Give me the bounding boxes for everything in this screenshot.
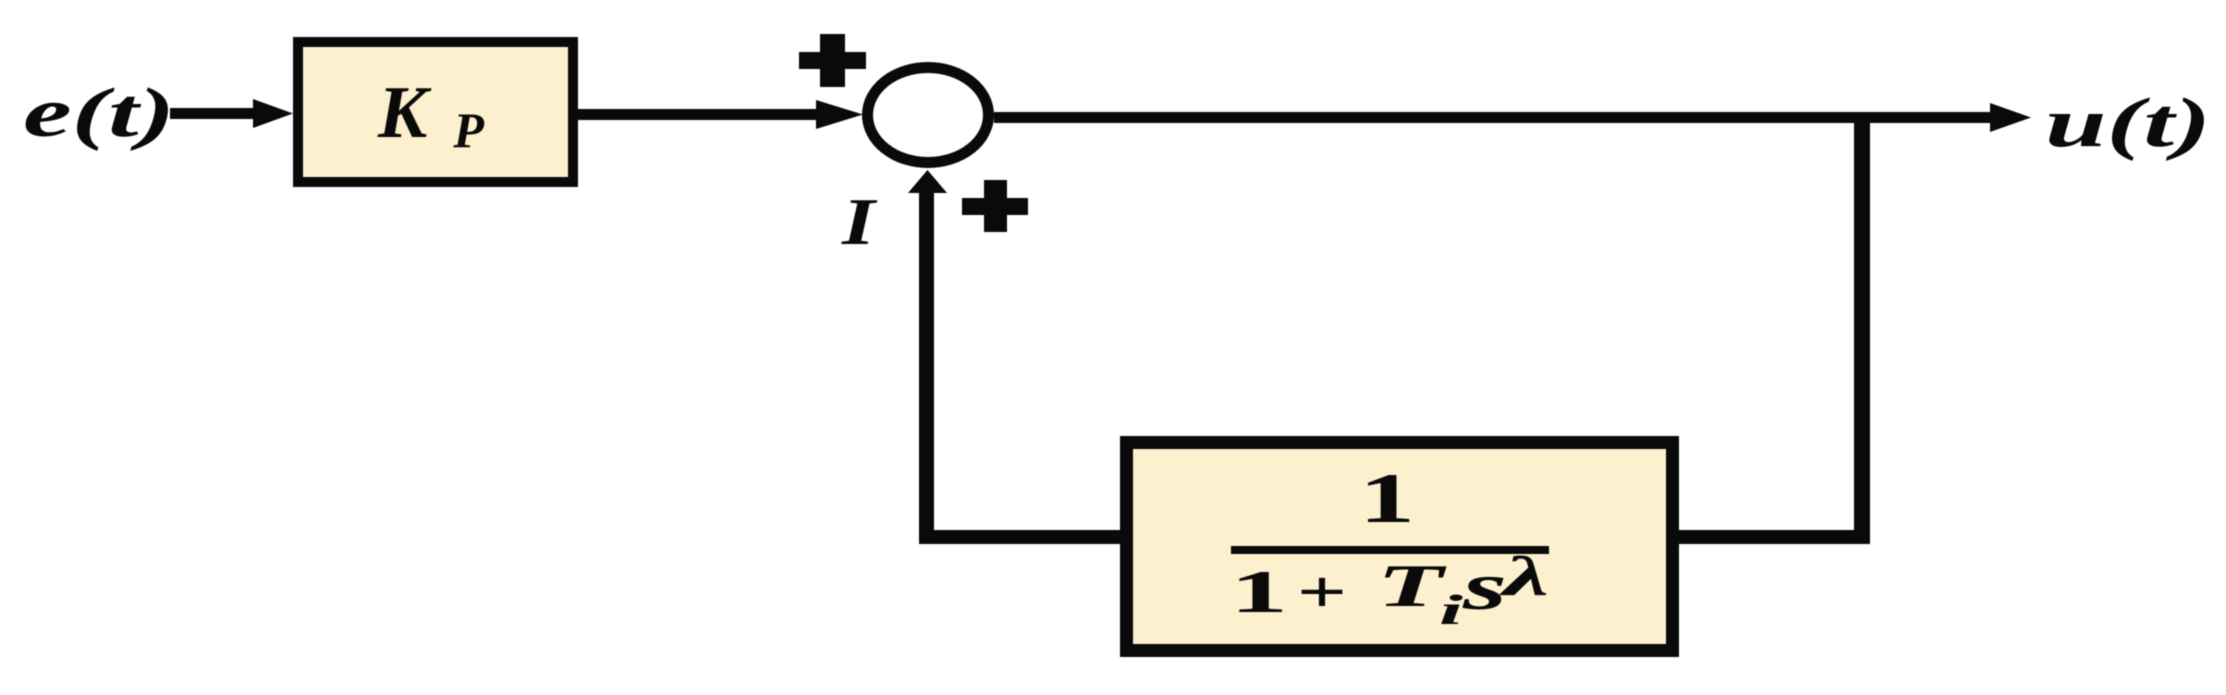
svg-text:1: 1 <box>1359 460 1415 538</box>
wire KP block to summing junction <box>578 100 863 129</box>
wire feedback horizontal left segment <box>920 530 1126 544</box>
summing junction circle <box>868 68 989 163</box>
block KP (proportional gain) <box>298 42 573 182</box>
wire right riser from output line down to feedback <box>1854 112 1870 544</box>
svg-text:e(t): e(t) <box>23 75 175 152</box>
wire input arrow e(t) to KP block <box>170 99 293 128</box>
svg-text:u(t): u(t) <box>2045 85 2211 162</box>
wire feedback horizontal right segment <box>1679 530 1870 544</box>
wire feedback riser up into summing junction <box>908 170 947 544</box>
block 1/(1+Ti s^lambda) (fractional integrator) <box>1127 443 1673 651</box>
wire summing junction to output u(t) <box>994 103 2031 132</box>
svg-text:I: I <box>841 185 878 259</box>
plus sign (upper input of summer) <box>799 34 866 87</box>
label fraction 1 over 1+Ti s^lambda <box>1230 460 1549 637</box>
plus sign (lower input of summer) <box>962 180 1028 232</box>
